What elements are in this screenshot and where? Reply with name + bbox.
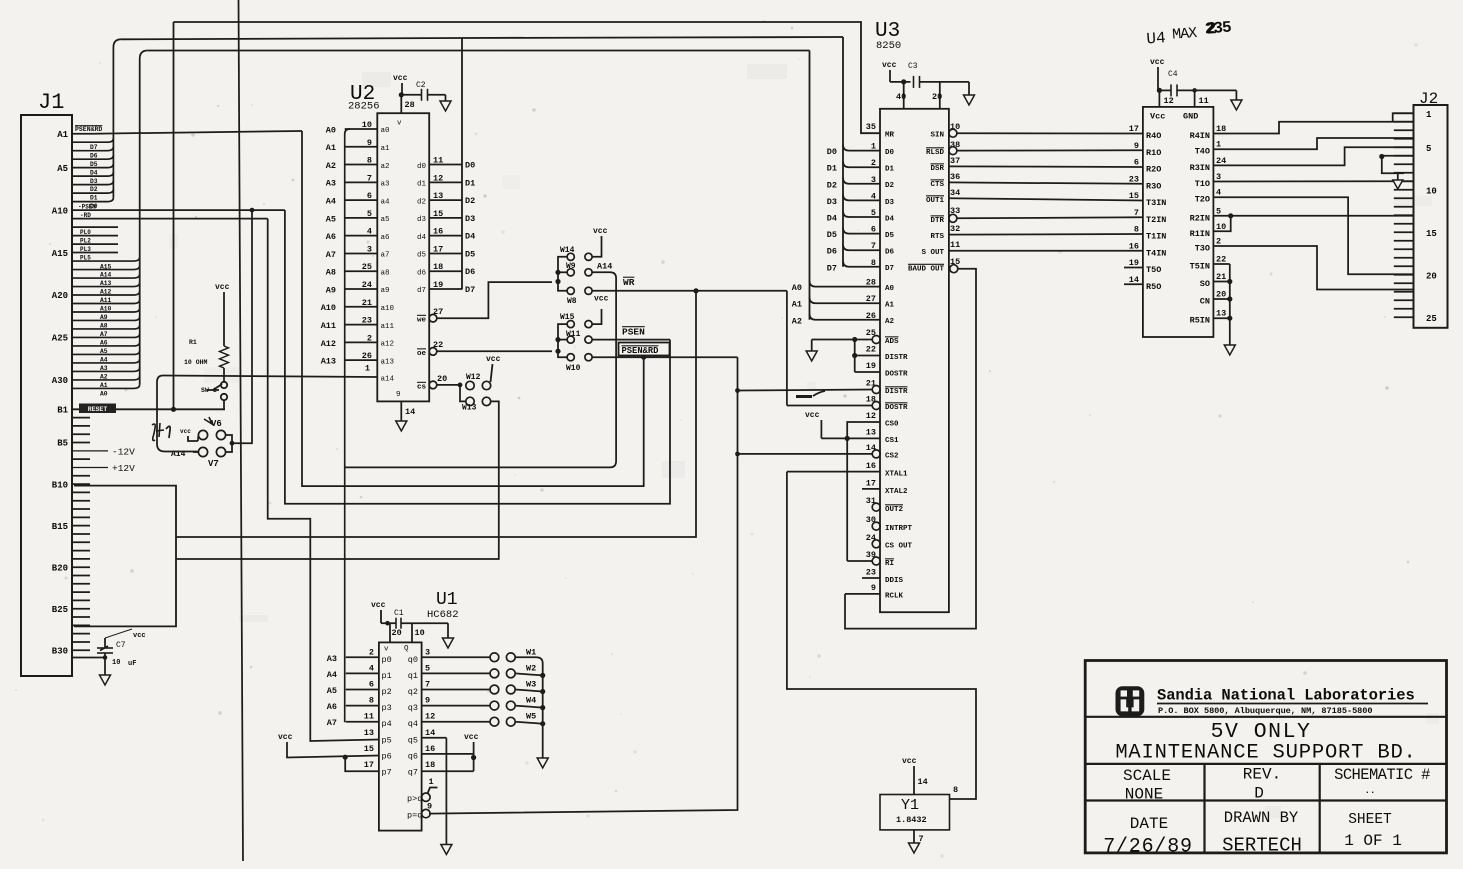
svg-text:D4: D4 bbox=[827, 214, 837, 224]
svg-text:6: 6 bbox=[369, 680, 374, 690]
svg-text:22: 22 bbox=[1216, 255, 1226, 265]
svg-text:Vcc: Vcc bbox=[1150, 112, 1165, 122]
svg-text:DOSTR: DOSTR bbox=[885, 404, 908, 412]
svg-text:MAX: MAX bbox=[1172, 25, 1198, 44]
svg-text:8: 8 bbox=[369, 696, 374, 706]
svg-text:NONE: NONE bbox=[1125, 786, 1163, 804]
svg-text:MR: MR bbox=[885, 132, 895, 140]
U2 address bus vertical bbox=[345, 129, 350, 722]
svg-text:D3: D3 bbox=[90, 178, 98, 185]
svg-text:5: 5 bbox=[1426, 144, 1431, 154]
net RESET from J1-B1 bbox=[72, 408, 225, 410]
svg-text:7: 7 bbox=[871, 241, 876, 251]
IC U4 MAX235 bbox=[1145, 19, 1232, 49]
ground at C1 bbox=[447, 623, 449, 638]
svg-text:2: 2 bbox=[369, 647, 374, 657]
svg-text:U4: U4 bbox=[1146, 29, 1166, 48]
J1 pin stubs A side bbox=[72, 226, 118, 228]
svg-text:a7: a7 bbox=[381, 252, 390, 260]
wire RESET top bus to U3 MR bbox=[174, 22, 881, 133]
U2 address pins a0-a13 with bus taps bbox=[345, 128, 378, 130]
svg-text:D6: D6 bbox=[90, 152, 98, 159]
svg-text:q4: q4 bbox=[408, 719, 418, 729]
svg-text:D3: D3 bbox=[827, 197, 837, 207]
svg-text:15: 15 bbox=[364, 744, 374, 754]
svg-text:26: 26 bbox=[362, 351, 372, 361]
svg-text:36: 36 bbox=[950, 172, 960, 182]
svg-text:4: 4 bbox=[871, 191, 876, 201]
svg-text:15: 15 bbox=[1426, 229, 1437, 239]
svg-text:A1: A1 bbox=[326, 143, 336, 153]
svg-text:A1: A1 bbox=[792, 300, 802, 310]
svg-text:RCLK: RCLK bbox=[885, 593, 904, 601]
svg-text:T5IN: T5IN bbox=[1190, 262, 1210, 272]
resistor R1 bbox=[220, 346, 229, 368]
svg-text:25: 25 bbox=[1426, 314, 1437, 324]
svg-text:2: 2 bbox=[1206, 20, 1218, 40]
svg-text:A15: A15 bbox=[52, 249, 68, 259]
svg-text:T4IN: T4IN bbox=[1146, 248, 1166, 258]
svg-text:D4: D4 bbox=[90, 169, 98, 176]
svg-text:A20: A20 bbox=[52, 291, 68, 301]
svg-text:30: 30 bbox=[866, 515, 876, 525]
svg-text:B5: B5 bbox=[57, 439, 68, 449]
U1 q5 to ground bbox=[422, 737, 447, 739]
svg-text:RI: RI bbox=[885, 560, 894, 568]
svg-text:R3O: R3O bbox=[1146, 181, 1161, 191]
svg-text:14: 14 bbox=[405, 407, 415, 417]
svg-text:20: 20 bbox=[1216, 290, 1226, 300]
svg-text:7: 7 bbox=[425, 680, 430, 690]
svg-text:CN: CN bbox=[1200, 297, 1210, 307]
svg-text:uF: uF bbox=[128, 660, 136, 668]
svg-text:Sandia National Laboratories: Sandia National Laboratories bbox=[1157, 687, 1415, 705]
ground at J2-6 bbox=[1382, 156, 1414, 173]
svg-text:19: 19 bbox=[1129, 258, 1139, 268]
svg-text:23: 23 bbox=[1129, 174, 1139, 184]
svg-text:vcc: vcc bbox=[215, 283, 230, 292]
svg-text:a4: a4 bbox=[381, 198, 391, 206]
svg-text:10: 10 bbox=[112, 659, 120, 667]
svg-text:D6: D6 bbox=[465, 267, 475, 277]
wire XTAL1 to Y1 bbox=[787, 472, 976, 799]
svg-text:PL0: PL0 bbox=[80, 229, 91, 236]
svg-text:A7: A7 bbox=[326, 250, 336, 260]
svg-text:XTAL2: XTAL2 bbox=[885, 488, 908, 496]
svg-text:4: 4 bbox=[367, 227, 372, 237]
svg-text:12: 12 bbox=[866, 411, 876, 421]
svg-text:CS OUT: CS OUT bbox=[885, 543, 913, 551]
svg-text:W8: W8 bbox=[567, 297, 577, 306]
svg-text:11: 11 bbox=[433, 156, 443, 166]
svg-text:A4: A4 bbox=[326, 197, 336, 207]
svg-text:7: 7 bbox=[1134, 208, 1139, 218]
svg-text:d4: d4 bbox=[417, 234, 427, 242]
svg-text:A4: A4 bbox=[100, 357, 108, 364]
svg-text:A1: A1 bbox=[57, 130, 68, 140]
svg-text:10 OHM: 10 OHM bbox=[184, 359, 208, 366]
jumper W12 bbox=[458, 383, 463, 388]
wire CS1 to RI bbox=[846, 438, 848, 561]
hand correction marks bbox=[796, 395, 812, 398]
svg-text:A25: A25 bbox=[52, 334, 68, 344]
svg-text:16: 16 bbox=[1129, 241, 1139, 251]
svg-text:37: 37 bbox=[950, 156, 960, 166]
svg-text:1: 1 bbox=[1216, 140, 1221, 150]
J1 address bus bundle A15-A0 bbox=[72, 257, 140, 261]
svg-text:27: 27 bbox=[866, 294, 876, 304]
wire R2IN to R1IN loop bbox=[1213, 215, 1413, 217]
svg-text:A1: A1 bbox=[100, 382, 108, 389]
svg-text:B30: B30 bbox=[52, 646, 68, 656]
net RD from J1-A11 bbox=[72, 218, 268, 220]
svg-text:A0: A0 bbox=[326, 125, 336, 135]
wire D bus drop to U3 D0-D7 bbox=[842, 37, 844, 267]
svg-text:a1: a1 bbox=[381, 145, 391, 153]
svg-text:14: 14 bbox=[866, 443, 876, 453]
svg-text:d7: d7 bbox=[417, 287, 426, 295]
svg-text:vcc: vcc bbox=[882, 61, 897, 70]
wire PSEN&RD riser down bbox=[302, 131, 644, 486]
handwriting near V6 bbox=[152, 424, 155, 441]
wire bracket J1 B10-B27 bbox=[74, 486, 176, 627]
net PSEN&RD from W10 bbox=[592, 356, 737, 358]
svg-text:A30: A30 bbox=[52, 376, 68, 386]
wires U3 to U4 bbox=[956, 132, 1143, 134]
svg-text:D4: D4 bbox=[885, 215, 895, 223]
svg-text:A6: A6 bbox=[100, 340, 108, 347]
svg-text:D5: D5 bbox=[465, 249, 475, 259]
svg-text:CS2: CS2 bbox=[885, 453, 899, 461]
wire WR to DOSTR-bar bbox=[786, 291, 788, 406]
svg-text:+12V: +12V bbox=[112, 463, 135, 474]
svg-text:A0: A0 bbox=[792, 283, 802, 293]
ground at R5IN chain bbox=[1224, 345, 1235, 355]
U3 data pins D0-D7 bbox=[843, 145, 880, 151]
svg-text:CTS: CTS bbox=[930, 181, 944, 189]
svg-text:D1: D1 bbox=[465, 178, 475, 188]
svg-text:R5O: R5O bbox=[1146, 282, 1161, 292]
svg-text:A11: A11 bbox=[100, 297, 112, 304]
svg-text:1: 1 bbox=[871, 142, 876, 152]
svg-text:BAUD OUT: BAUD OUT bbox=[908, 266, 945, 274]
svg-text:A2: A2 bbox=[100, 374, 108, 381]
svg-text:16: 16 bbox=[425, 744, 435, 754]
U3 address pins A0-A2 bbox=[810, 281, 881, 287]
svg-text:C2: C2 bbox=[416, 81, 426, 90]
svg-text:PSEN&RD: PSEN&RD bbox=[622, 346, 659, 356]
svg-text:A6: A6 bbox=[327, 702, 337, 712]
svg-text:19: 19 bbox=[866, 361, 876, 371]
svg-text:A13: A13 bbox=[321, 357, 336, 367]
J1 pin stubs B side bbox=[72, 417, 90, 419]
svg-text:-RD: -RD bbox=[80, 212, 91, 219]
svg-text:p4: p4 bbox=[382, 719, 392, 729]
svg-text:CS0: CS0 bbox=[885, 421, 899, 429]
svg-text:DTR: DTR bbox=[930, 217, 944, 225]
svg-text:vcc: vcc bbox=[464, 733, 479, 742]
jumper V6 bbox=[198, 430, 207, 439]
svg-text:SHEET: SHEET bbox=[1348, 812, 1392, 828]
svg-text:cs: cs bbox=[417, 384, 427, 392]
svg-text:D2: D2 bbox=[90, 186, 98, 193]
svg-text:DISTR: DISTR bbox=[885, 388, 908, 396]
capacitor C7 bbox=[72, 657, 105, 659]
svg-text:D0: D0 bbox=[465, 161, 475, 171]
svg-text:W4: W4 bbox=[526, 696, 536, 706]
svg-text:D1: D1 bbox=[827, 164, 837, 174]
svg-text:B20: B20 bbox=[52, 563, 68, 573]
svg-text:p1: p1 bbox=[382, 671, 392, 681]
svg-text:11: 11 bbox=[364, 712, 374, 722]
svg-text:B25: B25 bbox=[52, 605, 68, 615]
svg-text:A8: A8 bbox=[100, 323, 108, 330]
svg-text:W3: W3 bbox=[526, 680, 536, 690]
svg-text:v: v bbox=[397, 120, 402, 128]
wire A bus drop to U3 A0-A2 bbox=[809, 51, 811, 320]
svg-text:d3: d3 bbox=[417, 216, 427, 224]
svg-text:R1O: R1O bbox=[1146, 148, 1161, 158]
svg-text:DOSTR: DOSTR bbox=[885, 371, 908, 379]
svg-text:3: 3 bbox=[871, 175, 876, 185]
svg-text:23: 23 bbox=[866, 568, 876, 578]
svg-text:R2IN: R2IN bbox=[1190, 213, 1210, 223]
switch SW1 bbox=[223, 368, 225, 381]
svg-text:A4: A4 bbox=[327, 670, 337, 680]
net PSEN&RD from J1-A1 to U2 region bbox=[72, 133, 93, 135]
svg-text:31: 31 bbox=[866, 496, 876, 506]
svg-text:9: 9 bbox=[427, 802, 432, 812]
svg-text:T5O: T5O bbox=[1146, 265, 1161, 275]
svg-text:D5: D5 bbox=[885, 232, 895, 240]
wire U2 data bus drop bbox=[461, 38, 463, 290]
svg-text:C7: C7 bbox=[116, 641, 126, 650]
svg-text:PL2: PL2 bbox=[80, 238, 91, 245]
svg-text:D6: D6 bbox=[827, 247, 837, 257]
svg-text:9: 9 bbox=[396, 391, 401, 399]
svg-text:1: 1 bbox=[1426, 110, 1432, 120]
svg-text:W10: W10 bbox=[566, 364, 581, 373]
svg-text:18: 18 bbox=[425, 760, 435, 770]
svg-text:D: D bbox=[1254, 785, 1264, 803]
wire RESET riser to top bbox=[173, 22, 175, 409]
address taps A3-A7 to p0-p4 bbox=[346, 656, 379, 658]
svg-text:9: 9 bbox=[425, 696, 430, 706]
svg-text:1: 1 bbox=[365, 364, 370, 374]
svg-text:WR: WR bbox=[623, 277, 635, 288]
svg-text:J1: J1 bbox=[38, 90, 64, 115]
svg-text:a11: a11 bbox=[381, 323, 395, 331]
junction RESET to MR riser bbox=[171, 407, 176, 412]
wire T1O to J2-9 bbox=[1213, 180, 1413, 182]
svg-text:W12: W12 bbox=[466, 373, 481, 382]
svg-text:d6: d6 bbox=[417, 269, 427, 277]
W1-W5 common to ground bbox=[542, 663, 544, 758]
svg-text:D7: D7 bbox=[885, 265, 894, 273]
svg-text:v: v bbox=[384, 646, 389, 654]
svg-text:p3: p3 bbox=[382, 703, 392, 713]
svg-text:18: 18 bbox=[1216, 124, 1226, 134]
svg-text:8: 8 bbox=[953, 785, 958, 795]
svg-text:HC682: HC682 bbox=[427, 609, 459, 621]
svg-text:a10: a10 bbox=[381, 305, 395, 313]
wire R4IN to J2-1/2 bbox=[1213, 122, 1413, 134]
svg-text:OUT1: OUT1 bbox=[926, 197, 945, 205]
J2 pin stubs bbox=[1394, 112, 1414, 114]
svg-text:A8: A8 bbox=[326, 268, 336, 278]
svg-text:7: 7 bbox=[367, 173, 372, 183]
svg-text:D2: D2 bbox=[465, 196, 475, 206]
svg-text:q7: q7 bbox=[408, 768, 418, 778]
svg-text:1: 1 bbox=[429, 777, 434, 787]
svg-text:A9: A9 bbox=[326, 285, 336, 295]
svg-text:D7: D7 bbox=[827, 263, 837, 273]
svg-text:A2: A2 bbox=[885, 318, 895, 326]
svg-text:p2: p2 bbox=[382, 687, 392, 697]
wire T4O to J2-4 bbox=[1213, 138, 1413, 149]
svg-text:D3: D3 bbox=[465, 214, 475, 224]
svg-text:R3IN: R3IN bbox=[1190, 163, 1210, 173]
svg-text:D0: D0 bbox=[827, 147, 837, 157]
svg-text:12: 12 bbox=[425, 712, 435, 722]
svg-text:GND: GND bbox=[1183, 112, 1198, 122]
svg-text:3: 3 bbox=[425, 647, 430, 657]
svg-text:A5: A5 bbox=[57, 164, 68, 174]
ground at ADS bbox=[811, 340, 813, 352]
ground at C2 bbox=[445, 95, 447, 101]
svg-text:DRAWN BY: DRAWN BY bbox=[1224, 809, 1299, 827]
svg-text:a9: a9 bbox=[381, 287, 390, 295]
svg-text:q5: q5 bbox=[408, 735, 418, 745]
left bracket W15-W10 bbox=[558, 324, 567, 357]
svg-text:W1: W1 bbox=[526, 647, 536, 657]
svg-text:13: 13 bbox=[364, 728, 374, 738]
svg-text:A7: A7 bbox=[100, 331, 108, 338]
svg-text:a8: a8 bbox=[381, 269, 390, 277]
svg-text:A7: A7 bbox=[327, 718, 337, 728]
svg-text:A10: A10 bbox=[100, 306, 112, 313]
ground below C7 bbox=[104, 658, 106, 676]
svg-text:a2: a2 bbox=[381, 163, 390, 171]
svg-text:5: 5 bbox=[1216, 206, 1221, 216]
svg-text:12: 12 bbox=[433, 173, 443, 183]
svg-text:SIN: SIN bbox=[930, 132, 944, 140]
wire PSEN riser down bbox=[285, 210, 670, 504]
wire WR branch to J1 B bracket bbox=[176, 291, 696, 537]
svg-text:DISTR: DISTR bbox=[885, 354, 908, 362]
svg-text:17: 17 bbox=[433, 244, 443, 254]
svg-text:-12V: -12V bbox=[112, 446, 135, 457]
svg-text:p=q: p=q bbox=[407, 811, 422, 821]
svg-text:p7: p7 bbox=[382, 768, 392, 778]
svg-text:5: 5 bbox=[871, 208, 876, 218]
svg-text:A10: A10 bbox=[52, 206, 68, 216]
svg-text:17: 17 bbox=[364, 760, 374, 770]
svg-text:ADS: ADS bbox=[885, 338, 899, 346]
svg-text:16: 16 bbox=[433, 227, 443, 237]
svg-text:vcc: vcc bbox=[805, 411, 820, 420]
svg-text:39: 39 bbox=[866, 550, 876, 560]
svg-text:T4O: T4O bbox=[1195, 147, 1210, 157]
wire R3IN to J2-5 bbox=[1213, 147, 1413, 165]
ground at C4 bbox=[1235, 90, 1237, 100]
svg-text:C3: C3 bbox=[908, 62, 918, 71]
svg-text:A15: A15 bbox=[100, 263, 112, 270]
svg-text:2: 2 bbox=[1216, 237, 1221, 247]
svg-text:R4IN: R4IN bbox=[1190, 131, 1210, 141]
svg-text:20: 20 bbox=[932, 92, 942, 102]
svg-text:W5: W5 bbox=[526, 712, 536, 722]
svg-text:10: 10 bbox=[1216, 222, 1226, 232]
svg-text:REV.: REV. bbox=[1243, 766, 1281, 784]
svg-text:vcc: vcc bbox=[902, 757, 917, 766]
svg-text:21: 21 bbox=[362, 298, 372, 308]
svg-text:24: 24 bbox=[1216, 156, 1226, 166]
svg-text:PSEN: PSEN bbox=[622, 327, 645, 338]
wire D bus top to U3 bbox=[121, 37, 843, 39]
net +12V bbox=[72, 466, 108, 468]
svg-text:18: 18 bbox=[866, 395, 876, 405]
svg-text:A13: A13 bbox=[100, 280, 112, 287]
svg-text:SW 1: SW 1 bbox=[201, 387, 217, 394]
svg-text:3: 3 bbox=[367, 244, 372, 254]
svg-text:D7: D7 bbox=[90, 144, 98, 151]
svg-text:25: 25 bbox=[362, 262, 372, 272]
svg-text:R5IN: R5IN bbox=[1190, 316, 1210, 326]
svg-text:A14: A14 bbox=[597, 262, 612, 272]
svg-text:R2O: R2O bbox=[1146, 165, 1161, 175]
svg-text:T2IN: T2IN bbox=[1146, 215, 1166, 225]
wire A14 from V7 to a14 bbox=[157, 376, 198, 452]
svg-text:12: 12 bbox=[1164, 96, 1174, 106]
svg-text:A5: A5 bbox=[100, 348, 108, 355]
svg-text:5: 5 bbox=[425, 663, 430, 673]
wire PSEN&RD riser to U1 p=q bbox=[429, 357, 737, 813]
svg-text:B1: B1 bbox=[57, 406, 68, 416]
svg-text:S OUT: S OUT bbox=[921, 249, 944, 257]
svg-text:..: .. bbox=[1365, 786, 1376, 796]
svg-text:B10: B10 bbox=[52, 480, 68, 490]
wire W13 to J1 B bracket bbox=[176, 401, 499, 559]
svg-text:Q: Q bbox=[404, 645, 409, 653]
svg-text:d1: d1 bbox=[417, 181, 427, 189]
svg-text:24: 24 bbox=[362, 280, 372, 290]
svg-text:D2: D2 bbox=[827, 180, 837, 190]
svg-text:6: 6 bbox=[367, 191, 372, 201]
net PSEN from J1-A10 bbox=[72, 209, 285, 211]
svg-text:2: 2 bbox=[367, 333, 372, 343]
svg-text:DATE: DATE bbox=[1130, 815, 1168, 833]
wire V6V7 riser to PSEN line bbox=[232, 210, 252, 443]
svg-text:a3: a3 bbox=[381, 181, 391, 189]
svg-text:24: 24 bbox=[866, 533, 876, 543]
svg-text:32: 32 bbox=[950, 224, 960, 234]
svg-text:11: 11 bbox=[1199, 96, 1209, 106]
svg-text:R1: R1 bbox=[189, 339, 197, 346]
svg-text:8: 8 bbox=[871, 258, 876, 268]
svg-text:V7: V7 bbox=[208, 459, 219, 469]
svg-text:A3: A3 bbox=[326, 179, 336, 189]
svg-text:U1: U1 bbox=[436, 590, 458, 610]
svg-text:vcc: vcc bbox=[1150, 58, 1165, 67]
title block frame bbox=[1085, 661, 1446, 853]
svg-text:A11: A11 bbox=[321, 321, 336, 331]
svg-text:p6: p6 bbox=[382, 751, 392, 761]
svg-text:CS1: CS1 bbox=[885, 437, 899, 445]
svg-text:20: 20 bbox=[1426, 271, 1437, 281]
svg-text:T1IN: T1IN bbox=[1146, 232, 1166, 242]
svg-text:XTAL1: XTAL1 bbox=[885, 471, 908, 479]
